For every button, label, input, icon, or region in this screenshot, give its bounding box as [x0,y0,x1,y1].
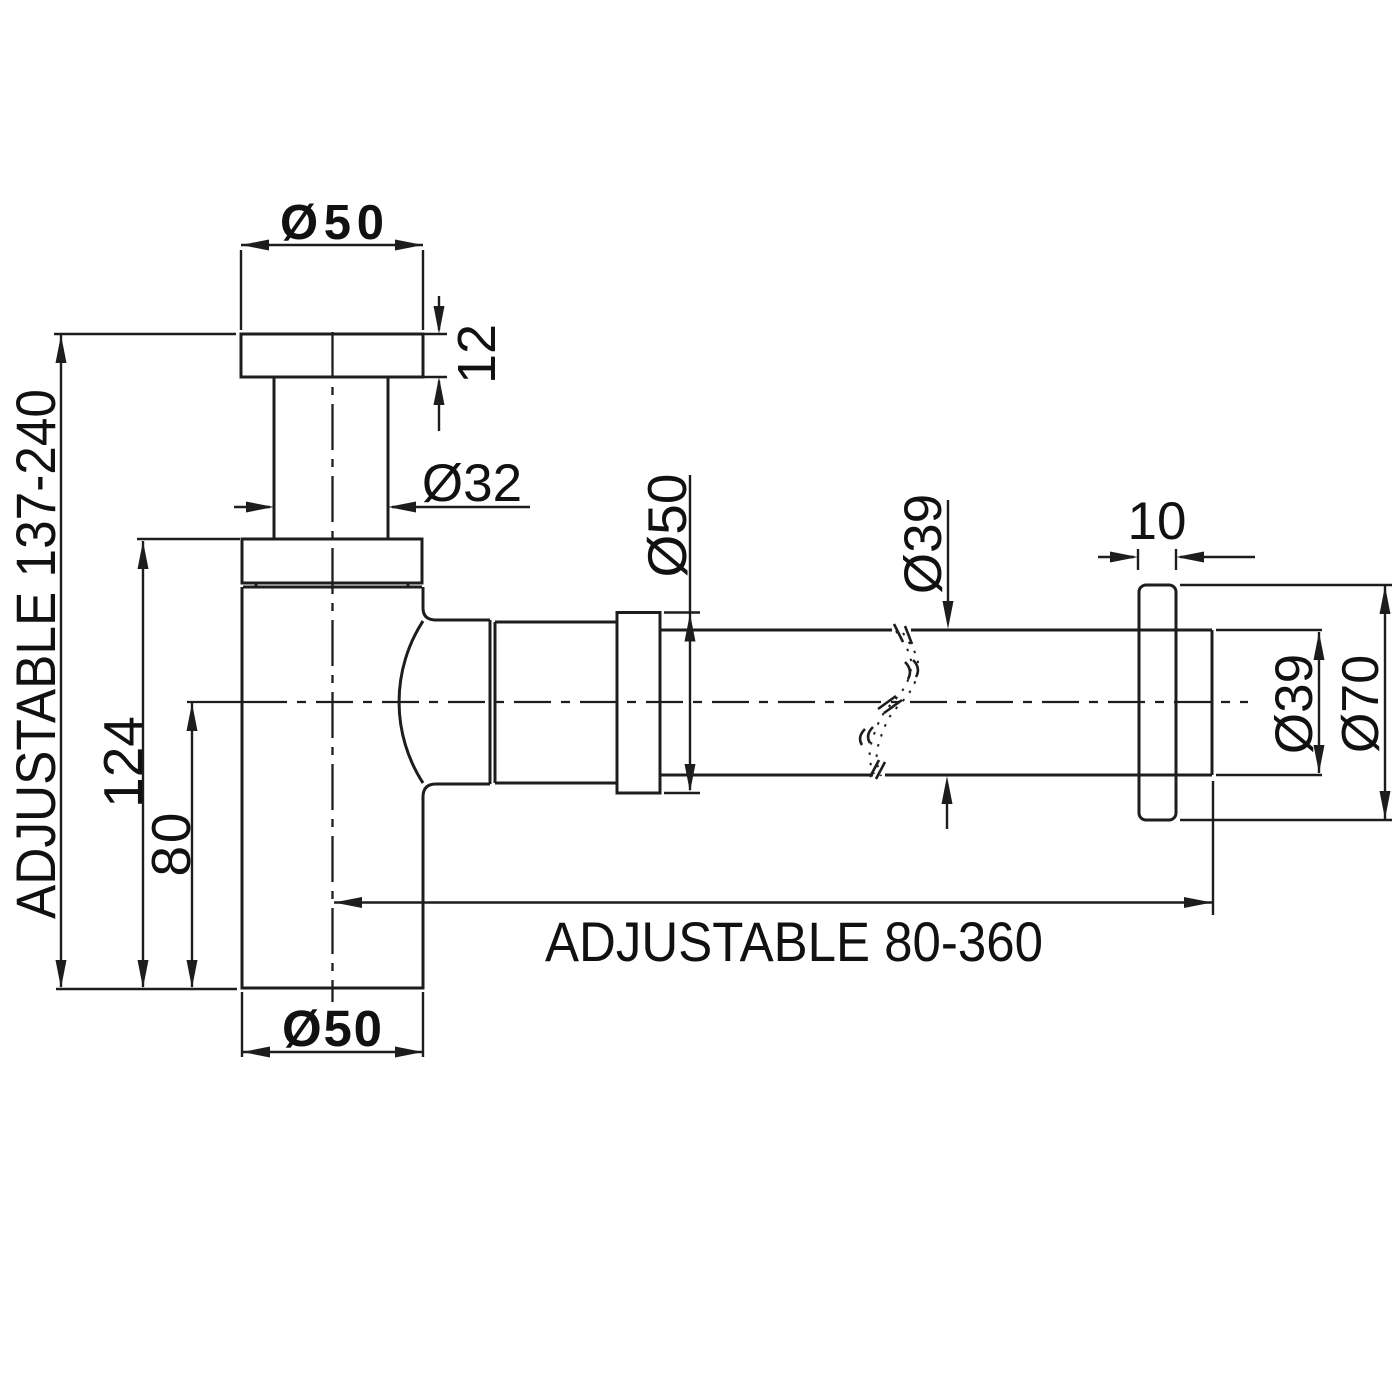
arrow Ø50 connector bottom [685,764,696,792]
dim 10 ticks [1137,549,1139,570]
arrow 12 upper [434,306,445,334]
dim Ø39 top leader [947,500,949,605]
outlet connector pipe [495,622,617,783]
vertical centerline [331,332,333,1002]
arrow 124 top [138,541,149,569]
horizontal centerline [187,701,250,703]
svg-text:Ø39: Ø39 [894,494,953,594]
bottle body [242,587,490,988]
svg-text:Ø50: Ø50 [636,474,698,578]
dimension texts [4,196,1390,1057]
arrow 80 bottom [187,960,198,988]
arrow 124 bottom [138,960,149,988]
dim Ø50 connector extensions [664,611,700,613]
centerlines [187,332,1248,1002]
dim Ø50 bottom line [242,1051,423,1053]
dim Ø50 top extension lines [240,250,242,330]
svg-text:Ø32: Ø32 [422,454,522,513]
dim adjustable 80-360 line [334,901,1212,903]
internal dome arc [399,621,423,783]
bottle top nut [242,539,422,583]
dim Ø50 top line [241,244,423,246]
dim 124 line [142,541,144,987]
arrow Ø32 left [246,502,274,513]
svg-text:10: 10 [1128,492,1187,551]
outlet joint double line [490,620,495,784]
svg-text:Ø70: Ø70 [1332,655,1390,753]
arrow Ø50 top right [395,240,423,251]
dim adjustable 80-360 right extension [1212,781,1214,915]
dimensions [54,245,1392,1057]
arrow Ø70 bottom [1380,791,1391,819]
arrow 12 lower [434,377,445,405]
dim Ø32 lines [234,506,270,508]
arrow Ø32 right [388,502,416,513]
wall flange [1139,585,1176,820]
arrow adjustable 137-240 bottom [56,960,67,988]
dim 80 line [191,703,193,987]
dim Ø39 right line [1318,632,1320,773]
arrow Ø70 top [1380,586,1391,614]
arrow adjustable 80-360 right [1184,897,1212,908]
arrow 10 left [1110,552,1138,563]
svg-text:Ø39: Ø39 [1265,654,1324,754]
joint line under nut [243,584,422,587]
arrow Ø50 top left [241,240,269,251]
dim adjustable 137-240 line [60,335,62,987]
svg-text:ADJUSTABLE 80-360: ADJUSTABLE 80-360 [545,910,1043,973]
arrow Ø50 connector top [685,614,696,642]
horizontal outlet pipe [660,630,1212,775]
arrow Ø39 right bottom [1314,745,1325,773]
svg-text:ADJUSTABLE 137-240: ADJUSTABLE 137-240 [4,389,67,919]
arrow Ø50 bottom left [242,1047,270,1058]
arrow 80 top [187,703,198,731]
dim Ø50 connector line [689,475,691,790]
svg-text:Ø50: Ø50 [282,1000,382,1057]
dim 10 lines [1098,556,1134,558]
arrow Ø39 top down [943,601,954,629]
pipe break symbol [860,624,918,779]
dim 12 ticks [424,333,447,335]
top basin flange [241,334,423,377]
dim Ø39 right extensions [1216,629,1322,631]
arrow Ø39 bottom up [942,776,953,804]
arrow 10 right [1176,552,1204,563]
dim Ø70 extensions [1180,584,1392,586]
dim 12 arrow stems [438,296,440,330]
arrowheads [56,240,1391,1058]
tailpiece pipe body [274,377,388,539]
dim Ø70 line [1384,586,1386,819]
arrow Ø50 bottom right [395,1047,423,1058]
connector nut [617,613,660,794]
svg-text:124: 124 [92,716,154,808]
svg-text:12: 12 [447,324,507,384]
dim Ø50 bottom extensions [241,992,243,1057]
shared bottom extension [56,988,237,990]
arrow Ø39 right top [1314,632,1325,660]
dim adjustable 137-240 top extension [54,333,236,335]
svg-text:Ø50: Ø50 [280,196,384,250]
dim 124 top extension [137,538,240,540]
arrow adjustable 137-240 top [56,335,67,363]
arrow adjustable 80-360 left [334,897,362,908]
